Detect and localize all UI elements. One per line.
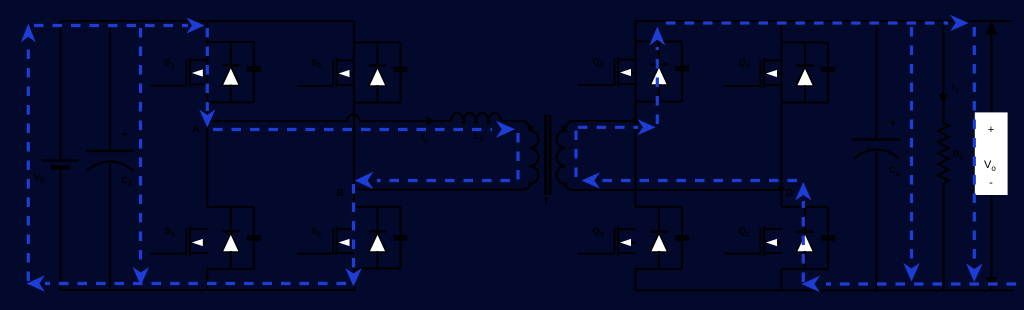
switch cell S3 box — [354, 42, 401, 44]
current arrow ip on wire — [426, 117, 436, 126]
svg-text:+: + — [890, 118, 896, 130]
snubber capacitor of S4 — [253, 207, 255, 237]
diode D4 (S4 antiparallel) — [230, 207, 232, 232]
flow arrow down through S1 to node A — [199, 110, 215, 128]
wire inductor to transformer — [501, 120, 522, 122]
flow arrow left at node B — [355, 172, 374, 190]
flow dashed branch down before Co — [910, 27, 913, 262]
diode D2 (S2 antiparallel) — [377, 207, 379, 232]
flow arrow right on top dashed wire — [187, 18, 205, 34]
inductor Lk — [451, 113, 501, 121]
diode D4 (Q4 antiparallel) — [658, 207, 660, 232]
diode D3 (S3 antiparallel) — [377, 43, 379, 66]
diode D2 (Q2 antiparallel) — [804, 207, 806, 232]
flow dashed wire up through Q1 diode — [656, 47, 659, 124]
flow loop left: battery riser dashed wire — [27, 41, 30, 281]
flow arrow left on right bottom toward Q2 — [802, 276, 821, 293]
flow dashed wire secondary top to Q1 — [578, 126, 638, 129]
flow arrow left into transformer secondary — [582, 172, 601, 189]
node D junction dot — [779, 186, 785, 192]
diode D3 (Q3 antiparallel) — [804, 43, 806, 66]
switch cell S4 box — [207, 206, 254, 208]
output voltage box Vo — [975, 112, 1008, 195]
flow dashed wire through S1 — [206, 28, 209, 111]
snubber capacitor of Q1 — [681, 42, 683, 68]
flow dashed branch through CA — [139, 28, 142, 266]
flow arrow right toward Q1 diode — [638, 119, 656, 135]
output sense wire with arrows — [991, 21, 993, 112]
switch cell S1 box — [207, 41, 254, 43]
wire top rail right bridge — [636, 20, 1013, 22]
svg-text:A: A — [192, 124, 199, 135]
capacitor Co — [876, 21, 878, 139]
transformer T primary winding — [522, 121, 539, 190]
flow loop right: top dashed wire — [666, 21, 948, 24]
wire node A to inductor (with hop over S3 leg) — [207, 115, 451, 122]
transformer secondary polarity dot — [561, 126, 566, 131]
switch cell Q2 box — [782, 206, 829, 208]
snubber capacitor of S2 — [400, 207, 402, 237]
flow loop left: top dashed wire — [34, 24, 188, 27]
switch cell S2 box — [354, 206, 401, 208]
transistor Q2 symbol — [760, 228, 762, 254]
snubber capacitor of Q2 — [827, 207, 829, 237]
flow dashed wire up secondary side — [576, 127, 578, 177]
transistor S3 symbol — [332, 60, 334, 87]
flow arrow up above Q1 — [649, 27, 665, 46]
node C junction dot — [633, 118, 639, 124]
svg-text:T: T — [543, 197, 549, 208]
svg-text:B: B — [337, 188, 344, 199]
snubber capacitor of S1 — [253, 42, 255, 68]
flow dashed wire down right edge — [973, 27, 976, 262]
svg-text:+: + — [121, 129, 127, 141]
switch cell Q1 box — [636, 41, 683, 43]
flow arrow up at battery riser — [21, 24, 36, 43]
wire bottom rail right bridge — [636, 290, 1014, 292]
resistor RL — [943, 21, 945, 123]
flow loop right: bottom dashed wire — [826, 282, 1016, 285]
svg-text:-: - — [989, 177, 993, 189]
svg-text:D: D — [786, 188, 793, 199]
flow arrow left at bottom left corner — [27, 275, 46, 292]
transformer T secondary winding — [557, 121, 574, 190]
flow arrow down on right edge — [966, 264, 983, 283]
flow arrow up through Q2 to node D — [795, 182, 812, 201]
battery VB — [60, 21, 62, 159]
transistor Q3 symbol — [760, 60, 762, 87]
wire secondary top to node C — [574, 120, 636, 122]
switch cell Q3 box — [782, 42, 829, 44]
flow arrow down through S2 — [345, 268, 362, 287]
transistor Q4 symbol — [614, 228, 616, 254]
flow dashed wire up through Q2 diode — [802, 201, 805, 282]
flow arrow right on right top rail — [950, 15, 969, 32]
flow dashed wire through S2 — [352, 184, 355, 268]
diode D1 (S1 antiparallel) — [230, 42, 232, 65]
flow dashed wire down primary side — [377, 133, 518, 181]
flow arrow right into transformer primary — [496, 121, 515, 138]
transistor S1 symbol — [185, 59, 187, 86]
transistor Q1 symbol — [614, 59, 616, 86]
wire leg Q3/Q2 — [781, 21, 783, 103]
wire node B to transformer primary bottom — [354, 189, 524, 191]
flow dashed wire node D to secondary bottom — [599, 179, 797, 182]
flow dashed wire node A to transformer — [213, 128, 492, 131]
flow arrow down through CA branch — [133, 267, 150, 286]
capacitor CA — [109, 21, 111, 150]
switch cell Q4 box — [636, 206, 683, 208]
transistor S4 symbol — [185, 228, 187, 254]
transformer primary polarity dot — [529, 126, 534, 131]
wire bottom rail left bridge — [61, 289, 357, 291]
wire leg S3/S2 (node B leg) — [353, 21, 355, 103]
svg-text:+: + — [988, 124, 994, 136]
flow arrow down on Co branch — [903, 263, 920, 282]
flow loop left: bottom dashed wire — [45, 282, 346, 285]
transformer T core — [544, 115, 547, 195]
wire leg S1/S4 (node A leg) — [206, 21, 208, 102]
current arrow io — [939, 94, 948, 104]
wire leg Q1/Q4 — [635, 21, 637, 102]
wire top rail left bridge — [61, 20, 355, 22]
snubber capacitor of Q3 — [827, 43, 829, 69]
transistor S2 symbol — [332, 228, 334, 254]
wire secondary bottom to node D — [572, 189, 782, 191]
snubber capacitor of Q4 — [681, 207, 683, 237]
diode D1 (Q1 antiparallel) — [658, 42, 660, 65]
snubber capacitor of S3 — [400, 43, 402, 69]
